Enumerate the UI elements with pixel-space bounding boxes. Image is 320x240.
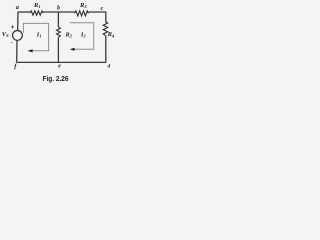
resistor R3 xyxy=(74,11,88,16)
voltage source VS xyxy=(13,31,23,41)
svg-text:c: c xyxy=(101,6,104,12)
wire left branch lower (source down to f) xyxy=(16,40,18,62)
wire bottom (f to e to d) xyxy=(17,61,107,63)
svg-text:VS: VS xyxy=(2,31,9,38)
wire right branch lower (R4 down to d) xyxy=(105,36,107,63)
mesh arrowhead I1 xyxy=(28,49,33,52)
wire middle branch stub (b down to R2) xyxy=(57,12,59,28)
mesh current loop I2 xyxy=(70,23,94,49)
mesh arrowhead I2 xyxy=(70,48,75,51)
mesh current loop I1 xyxy=(23,23,48,50)
svg-text:d: d xyxy=(108,64,111,70)
wire top: R1 to node b to R3 xyxy=(43,11,74,13)
minus polarity mark xyxy=(11,42,13,44)
wire left branch upper (a down to source) xyxy=(17,12,19,31)
wire right branch upper (c down to R4) xyxy=(105,12,107,22)
svg-text:b: b xyxy=(57,5,60,11)
plus polarity mark xyxy=(11,26,14,29)
background xyxy=(0,0,120,88)
svg-text:Fig. 2.26: Fig. 2.26 xyxy=(43,74,69,83)
resistor R1 xyxy=(30,11,43,15)
wire middle branch lower (R2 down to e) xyxy=(57,37,59,62)
resistor R4 xyxy=(103,22,108,36)
wire top: R3 to node c corner xyxy=(88,11,105,13)
svg-text:e: e xyxy=(58,63,61,69)
wire top: node a to R1 xyxy=(18,11,30,13)
resistor R2 xyxy=(57,27,61,37)
